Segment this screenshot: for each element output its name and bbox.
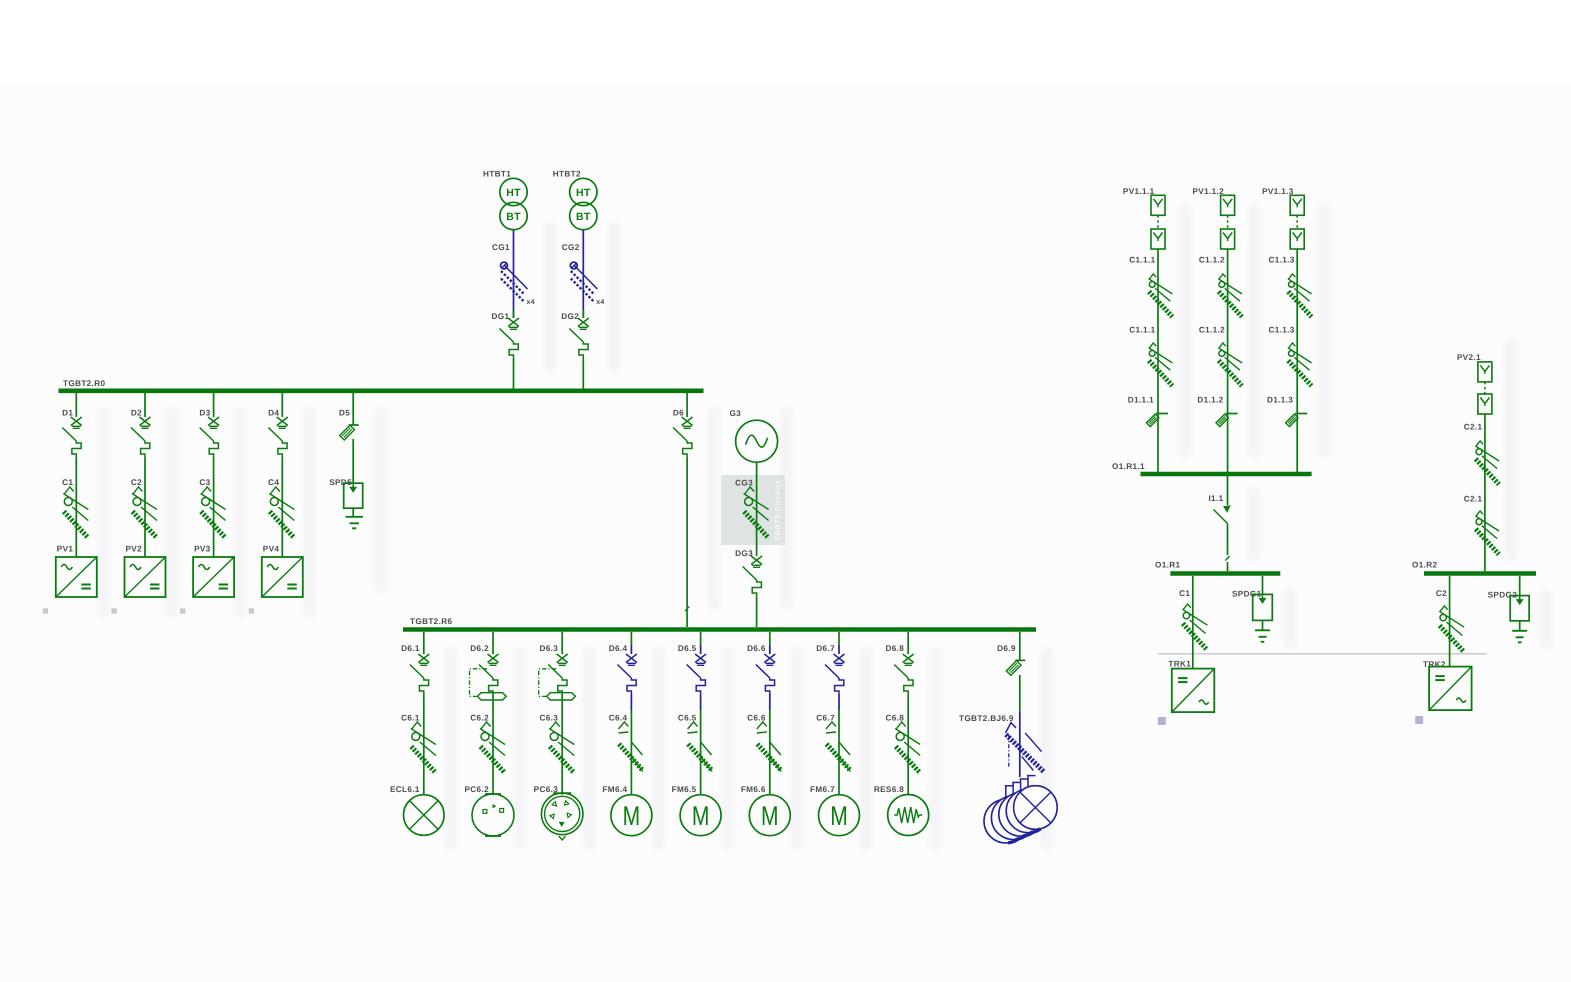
- svg-text:D6.6: D6.6: [747, 644, 766, 653]
- svg-text:DG1: DG1: [492, 312, 510, 321]
- svg-text:C6.8: C6.8: [885, 714, 904, 723]
- svg-text:D6.8: D6.8: [885, 644, 904, 653]
- svg-text:HT: HT: [576, 187, 591, 199]
- svg-text:D6: D6: [673, 409, 684, 418]
- svg-text:C1.1.3: C1.1.3: [1268, 326, 1294, 335]
- svg-text:O1.R1: O1.R1: [1155, 561, 1181, 570]
- svg-text:C1.1.3: C1.1.3: [1268, 256, 1294, 265]
- svg-text:PV4: PV4: [263, 545, 280, 554]
- svg-text:TGBT2 Circuits: TGBT2 Circuits: [775, 480, 782, 541]
- svg-text:FM6.7: FM6.7: [810, 785, 835, 794]
- svg-text:PV2: PV2: [125, 545, 142, 554]
- svg-text:FM6.6: FM6.6: [741, 785, 766, 794]
- svg-text:I1.1: I1.1: [1208, 494, 1223, 503]
- svg-text:FM6.4: FM6.4: [602, 785, 627, 794]
- svg-text:RES6.8: RES6.8: [874, 785, 904, 794]
- svg-text:M: M: [761, 801, 779, 831]
- svg-text:D1.1.1: D1.1.1: [1128, 396, 1154, 405]
- svg-text:PV2.1: PV2.1: [1457, 353, 1481, 362]
- svg-text:C3: C3: [199, 478, 210, 487]
- svg-text:D6.4: D6.4: [609, 644, 628, 653]
- svg-text:M: M: [623, 801, 641, 831]
- svg-text:TRK1: TRK1: [1168, 660, 1191, 669]
- svg-text:PC6.2: PC6.2: [464, 785, 489, 794]
- svg-text:C1: C1: [62, 478, 73, 487]
- svg-text:C6.5: C6.5: [678, 714, 697, 723]
- svg-text:O1.R2: O1.R2: [1412, 561, 1438, 570]
- svg-text:D6.1: D6.1: [401, 644, 420, 653]
- svg-text:DG3: DG3: [735, 549, 753, 558]
- svg-text:C6.7: C6.7: [816, 714, 835, 723]
- svg-text:D6.7: D6.7: [816, 644, 835, 653]
- svg-text:C1.1.2: C1.1.2: [1199, 326, 1225, 335]
- svg-text:BT: BT: [576, 211, 591, 223]
- svg-text:C6.2: C6.2: [470, 714, 489, 723]
- svg-text:CG1: CG1: [492, 243, 510, 252]
- svg-text:BT: BT: [506, 211, 521, 223]
- svg-text:TGBT2.R0: TGBT2.R0: [63, 379, 105, 388]
- svg-text:M: M: [692, 801, 710, 831]
- svg-text:C2: C2: [1436, 589, 1447, 598]
- svg-text:G3: G3: [729, 409, 741, 418]
- svg-text:HTBT1: HTBT1: [483, 170, 511, 179]
- svg-text:C6.1: C6.1: [401, 714, 420, 723]
- svg-text:CG3: CG3: [735, 479, 753, 488]
- svg-text:D1: D1: [62, 409, 73, 418]
- svg-text:D6.2: D6.2: [470, 644, 489, 653]
- svg-text:TGBT2.R6: TGBT2.R6: [410, 617, 452, 626]
- svg-text:C6.3: C6.3: [539, 714, 558, 723]
- svg-text:D6.3: D6.3: [539, 644, 558, 653]
- svg-text:D4: D4: [268, 409, 279, 418]
- svg-text:PV1.1.1: PV1.1.1: [1123, 187, 1155, 196]
- svg-text:PV1: PV1: [57, 545, 74, 554]
- svg-text:C1: C1: [1179, 589, 1190, 598]
- svg-text:D1.1.2: D1.1.2: [1197, 396, 1223, 405]
- svg-text:C1.1.1: C1.1.1: [1129, 326, 1155, 335]
- svg-text:D6.9: D6.9: [997, 644, 1016, 653]
- svg-text:D3: D3: [199, 409, 210, 418]
- svg-text:DG2: DG2: [561, 312, 579, 321]
- svg-text:x4: x4: [596, 299, 604, 306]
- svg-text:C1.1.2: C1.1.2: [1199, 256, 1225, 265]
- svg-text:C2.1: C2.1: [1464, 423, 1483, 432]
- svg-text:C1.1.1: C1.1.1: [1129, 256, 1155, 265]
- svg-text:C6.6: C6.6: [747, 714, 766, 723]
- svg-text:C2: C2: [131, 478, 142, 487]
- svg-text:HTBT2: HTBT2: [553, 170, 581, 179]
- svg-text:O1.R1.1: O1.R1.1: [1112, 462, 1145, 471]
- svg-text:PV3: PV3: [194, 545, 211, 554]
- svg-text:D5: D5: [339, 409, 350, 418]
- svg-text:D2: D2: [131, 409, 142, 418]
- svg-text:PV1.1.3: PV1.1.3: [1262, 187, 1294, 196]
- svg-text:CG2: CG2: [562, 243, 580, 252]
- svg-text:C4: C4: [268, 478, 279, 487]
- svg-text:TRK2: TRK2: [1423, 660, 1446, 669]
- svg-text:PV1.1.2: PV1.1.2: [1193, 187, 1225, 196]
- svg-text:D1.1.3: D1.1.3: [1267, 396, 1293, 405]
- svg-text:D6.5: D6.5: [678, 644, 697, 653]
- svg-text:C6.4: C6.4: [609, 714, 628, 723]
- svg-text:TGBT2.BJ6.9: TGBT2.BJ6.9: [959, 714, 1014, 723]
- svg-text:M: M: [830, 801, 848, 831]
- svg-text:C2.1: C2.1: [1464, 495, 1483, 504]
- svg-text:x4: x4: [527, 299, 535, 306]
- svg-text:FM6.5: FM6.5: [672, 785, 697, 794]
- svg-text:ECL6.1: ECL6.1: [390, 785, 420, 794]
- svg-text:HT: HT: [506, 187, 521, 199]
